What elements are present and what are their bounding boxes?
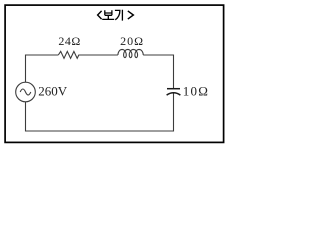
- svg-text:24Ω: 24Ω: [58, 34, 80, 48]
- svg-text:10Ω: 10Ω: [183, 84, 209, 99]
- svg-text:260V: 260V: [38, 84, 67, 99]
- svg-text:20Ω: 20Ω: [120, 34, 144, 48]
